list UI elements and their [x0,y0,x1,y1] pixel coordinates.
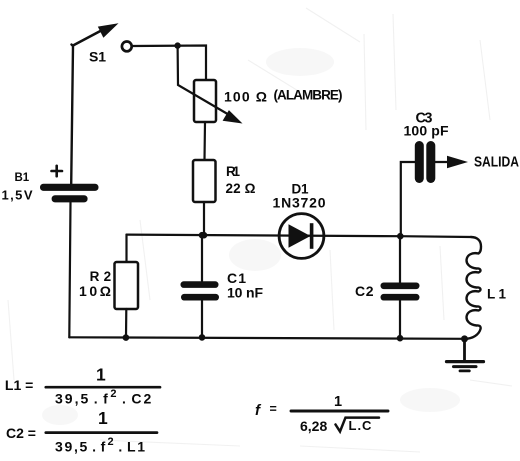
potentiometer wiper arrowhead [223,110,243,123]
svg-text:C2: C2 [355,283,374,299]
svg-text:1: 1 [96,365,106,385]
wire R2 bottom to ground rail [125,309,128,338]
svg-text:1: 1 [98,408,108,428]
wire C3 to output arrow [435,161,449,163]
capacitor C3 plates [415,141,436,183]
battery B1 negative plate [52,195,88,202]
svg-text:SALIDA: SALIDA [474,155,519,171]
svg-text:(ALAMBRE): (ALAMBRE) [274,88,343,103]
diode D1 circle [279,214,324,259]
label B1 1,5V [2,172,33,203]
svg-text:C2 =: C2 = [6,425,36,441]
ground symbol [447,339,484,371]
label battery plus sign [52,166,63,176]
label D1 1N3720 [273,182,326,211]
formula C2 equation [6,408,157,455]
capacitor C2 plates [381,283,420,301]
wire C2 top lead [399,236,401,283]
resistor R1 body [193,160,216,202]
wire battery negative to bottom rail [69,202,70,337]
wire R2 branch from rail [125,235,127,262]
svg-text:L1 =: L1 = [5,377,33,393]
node junction C1 / rail [199,232,206,239]
node junction R1 / rail [201,232,208,239]
svg-text:39,5.f2.L1: 39,5.f2.L1 [55,436,147,455]
svg-text:39,5.f2.C2: 39,5.f2.C2 [55,388,153,407]
label 100 ohm (ALAMBRE) [224,88,343,105]
capacitor C1 plates [181,281,220,300]
svg-text:1,5V: 1,5V [2,188,33,203]
svg-text:1: 1 [334,394,342,410]
wire bottom ground rail [69,337,464,339]
switch S1 lever with arrow [73,23,119,45]
node junction C2 / bottom rail [397,335,404,342]
label R2 10 ohm [79,269,111,299]
wire wiper branch from junction [178,46,231,116]
node junction C1 / bottom rail [199,334,206,341]
node junction coil / ground [461,335,468,342]
node junction R2 / bottom rail [123,334,130,341]
svg-text:L.C: L.C [349,418,373,433]
svg-text:10Ω: 10Ω [79,283,111,299]
wire C2 bottom lead [399,301,401,339]
potentiometer P1 100 ohm body [194,80,216,122]
svg-text:1N3720: 1N3720 [273,195,326,211]
wire potentiometer to R1 [203,122,206,160]
svg-text:6,28: 6,28 [300,418,327,434]
resistor R2 body [115,262,139,309]
switch terminal circle [122,42,132,52]
wire C3 branch vertical [401,162,415,236]
svg-text:100 pF: 100 pF [404,123,449,139]
node junction at switch wire [174,42,180,48]
wire C1 top lead [201,235,203,281]
output arrowhead SALIDA [447,156,468,168]
battery B1 positive plate [40,184,99,191]
node junction rail / C3 branch [397,233,404,240]
wire R1 bottom to rail [203,202,205,235]
svg-text:=: = [270,402,277,416]
wire battery positive to switch pivot [71,45,73,185]
svg-text:S1: S1 [89,49,106,65]
formula L1 equation [5,365,160,407]
diode D1 anode triangle [289,224,311,248]
svg-text:R1: R1 [226,164,240,179]
svg-text:22 Ω: 22 Ω [226,181,256,196]
label C1 10 nF [227,270,263,301]
formula f equation [255,394,388,434]
svg-text:10 nF: 10 nF [227,285,263,301]
diode D1 cathode bar [310,223,314,249]
svg-text:100 Ω: 100 Ω [224,89,267,105]
label C3 100 pF [404,111,449,139]
inductor L1 coil [465,237,482,339]
wire switch terminal to potentiometer top [133,46,206,81]
wire C1 bottom lead [201,301,203,338]
svg-text:B1: B1 [15,172,30,184]
wire middle rail through diode [127,235,472,237]
label R1 22 ohm [226,164,256,196]
